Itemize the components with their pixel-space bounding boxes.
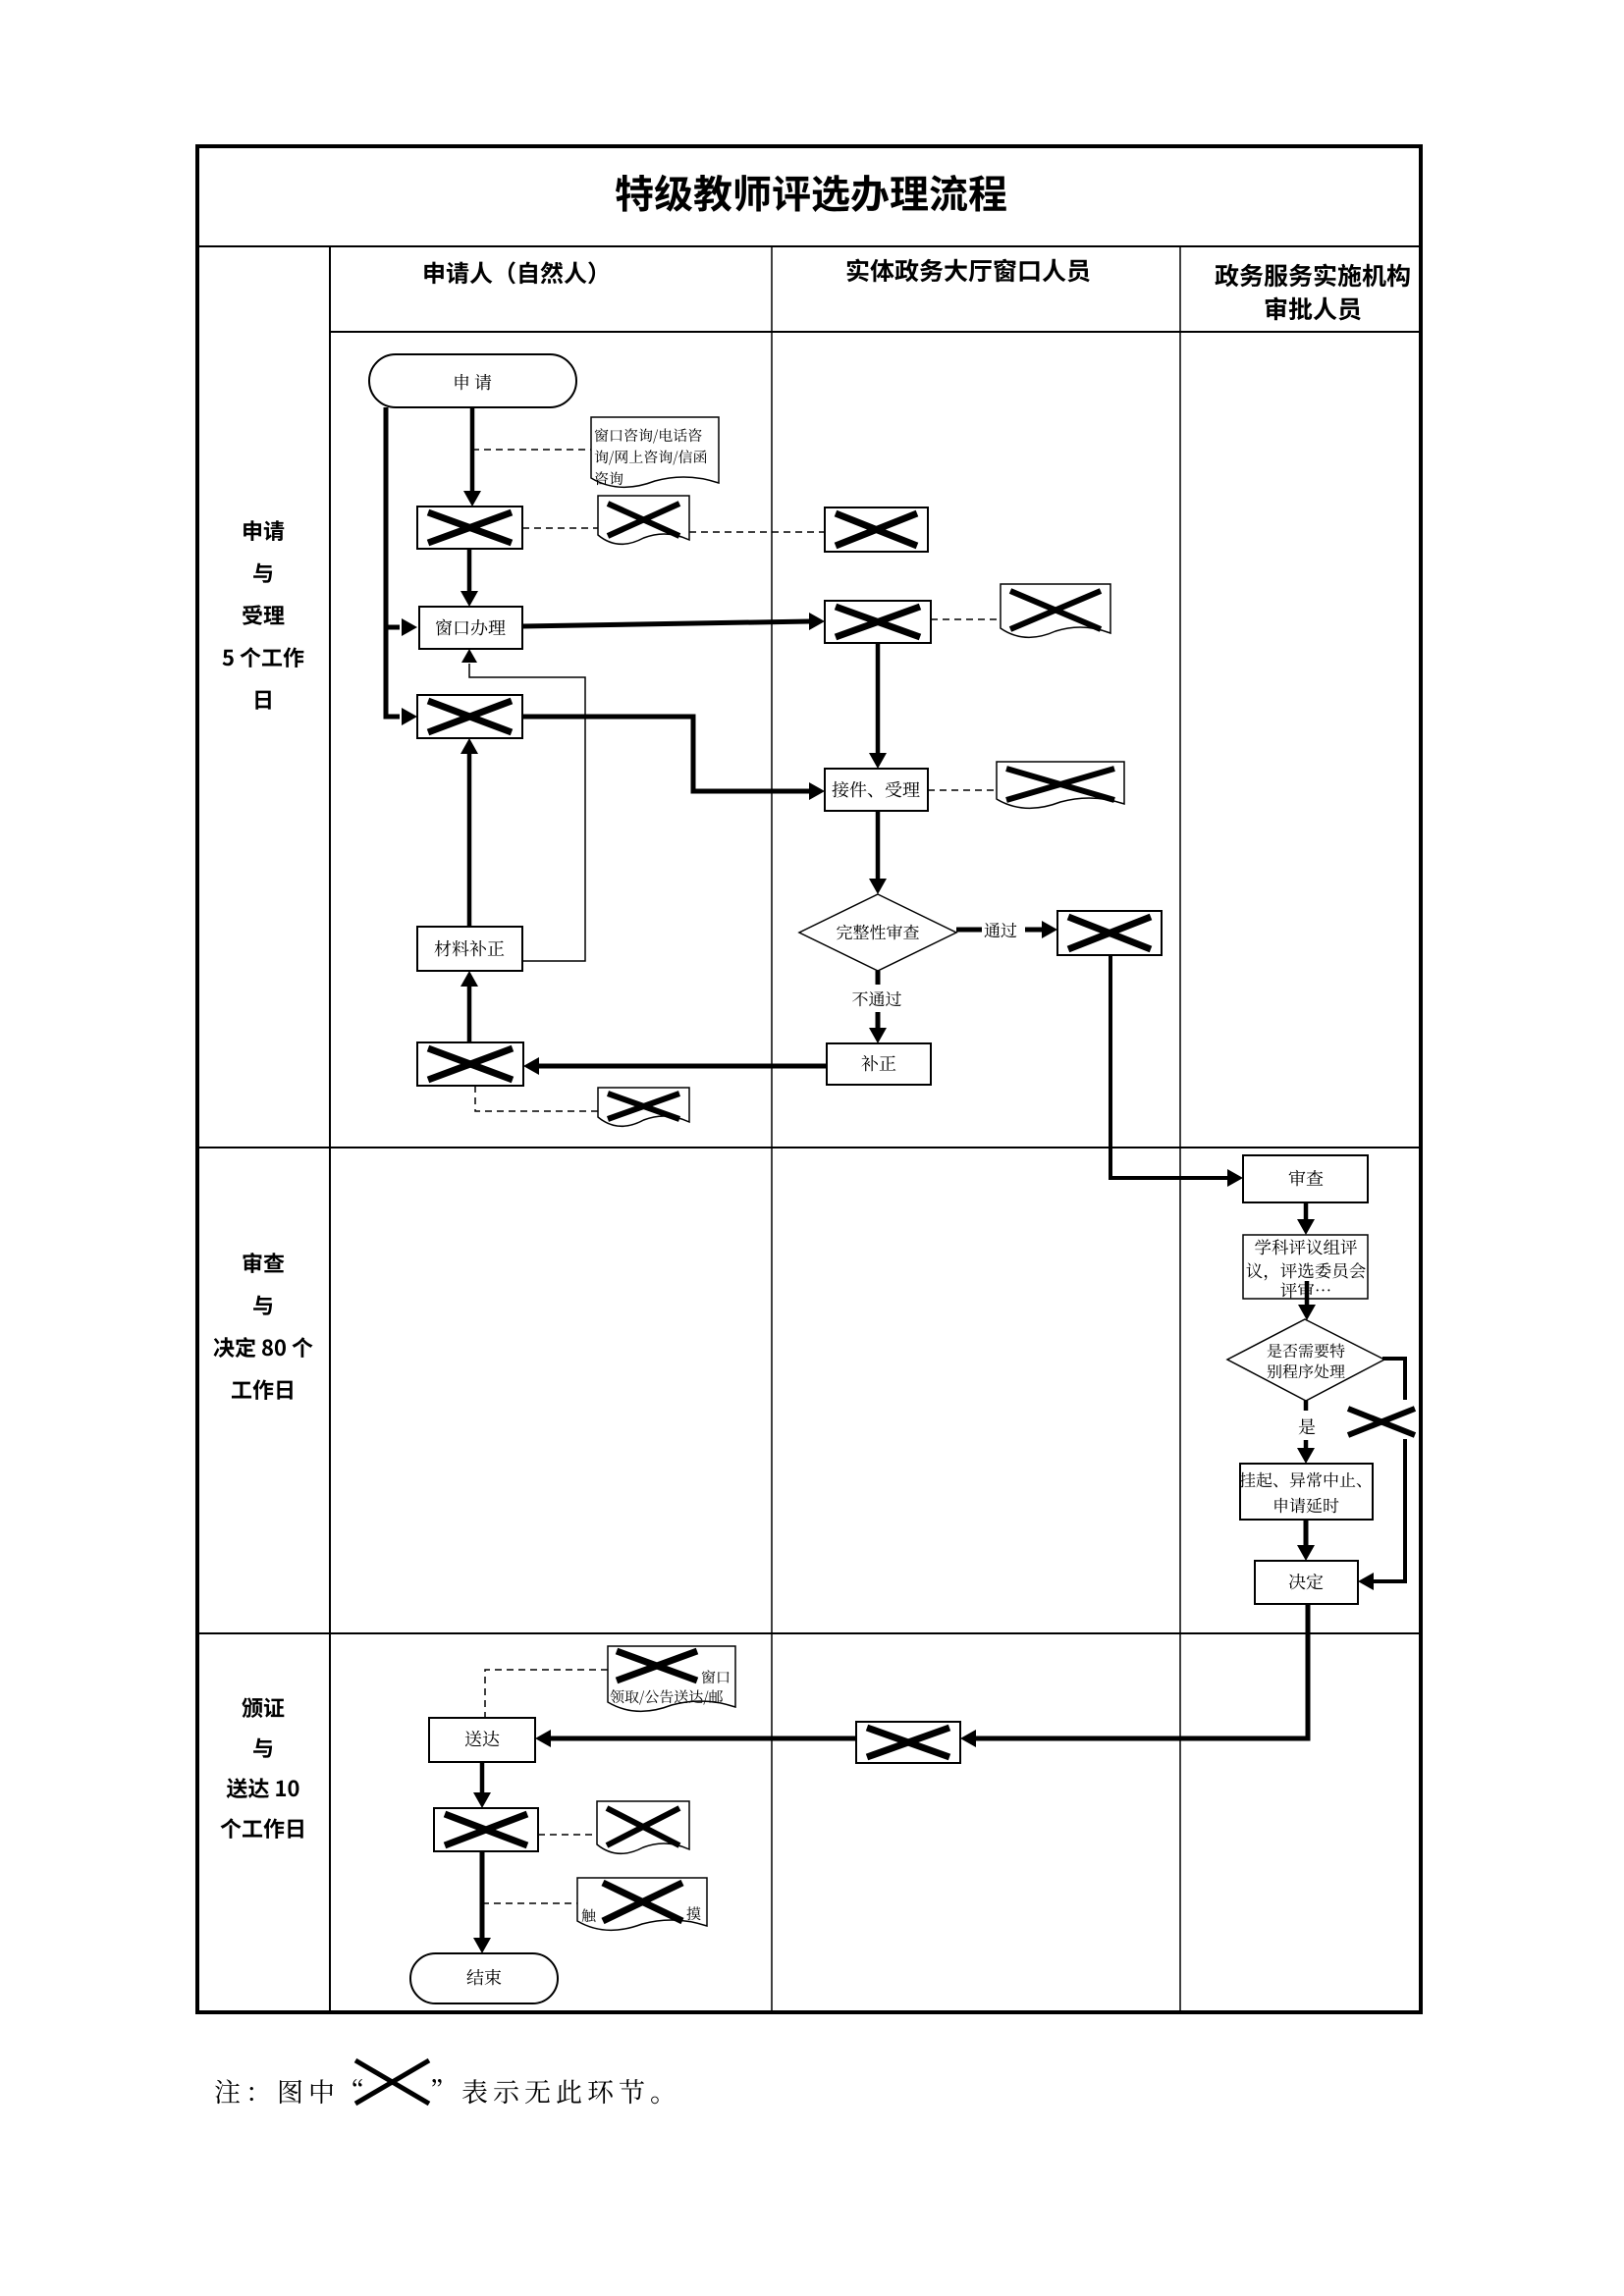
process 挂起、异常中止、申请延时 bbox=[1240, 1464, 1373, 1520]
end terminator 结束 bbox=[410, 1953, 558, 2003]
note 窗口咨询/电话咨询/网上咨询/信函咨询 bbox=[591, 417, 719, 487]
arrow X-box6 to 接件受理 bbox=[876, 643, 881, 754]
arrow 补正 to X-box3 bbox=[539, 1064, 827, 1069]
label 不通过 bbox=[852, 991, 901, 1006]
label column divider bbox=[329, 246, 331, 2011]
X-doc2 no-step document bbox=[598, 1088, 689, 1126]
X-box8 no-step bbox=[856, 1722, 960, 1763]
label 通过 bbox=[985, 923, 1017, 937]
row label C bbox=[242, 1697, 284, 1718]
legend text right bbox=[432, 2079, 442, 2087]
X-box6 no-step bbox=[825, 601, 931, 643]
arrow 挂起 to 决定 bbox=[1304, 1520, 1309, 1546]
process 决定 bbox=[1255, 1561, 1358, 1604]
row label B bbox=[244, 1253, 285, 1273]
path X-box2 to 接件受理 bbox=[522, 717, 810, 791]
start terminator 申请 bbox=[369, 354, 576, 407]
arrow 学科评议 to diamond2 bbox=[1305, 1281, 1310, 1306]
title row divider bbox=[197, 245, 1421, 247]
row divider A/B bbox=[197, 1147, 1421, 1148]
process 送达 bbox=[429, 1718, 535, 1762]
arrow X-box3 to 材料补正 bbox=[467, 986, 472, 1042]
process 补正 bbox=[827, 1043, 931, 1085]
dashed X-doc1 to X-box5 bbox=[689, 531, 825, 533]
header col3 line1 政务服务实施机构 bbox=[1216, 263, 1410, 287]
dashed 接件受理 to X-doc4 bbox=[928, 789, 997, 791]
decision 是否需要特别程序处理 bbox=[1227, 1319, 1384, 1401]
arrow 审查 to 学科评议 bbox=[1304, 1202, 1309, 1220]
process 审查 bbox=[1243, 1155, 1368, 1202]
lane divider col1/col2 bbox=[771, 246, 773, 2011]
process 窗口办理 bbox=[419, 607, 522, 649]
arrow diamond2 to 挂起 bbox=[1304, 1401, 1309, 1411]
dashed X-box3 to X-doc2 bbox=[475, 1086, 598, 1111]
arrow 接件受理 to diamond bbox=[876, 811, 881, 880]
X-doc4 no-step document bbox=[997, 762, 1124, 808]
process 学科评议组评议评选委员会评审 bbox=[1243, 1235, 1368, 1299]
dashed link to consult note bbox=[472, 449, 591, 451]
header col3 line2 审批人员 bbox=[1266, 296, 1361, 320]
path 决定 to X-box8 bbox=[976, 1604, 1308, 1738]
note 触/摸 document bbox=[577, 1878, 707, 1930]
X-doc3 no-step document bbox=[1001, 584, 1110, 637]
arrow X-box1 to 窗口办理 bbox=[467, 549, 472, 592]
X-box5 no-step bbox=[825, 507, 928, 552]
thin feedback 材料补正 to 窗口办理 bbox=[469, 664, 585, 961]
process 材料补正 bbox=[417, 927, 522, 971]
arrow 申请 to X-box1 bbox=[470, 407, 475, 492]
lane divider col2/col3 bbox=[1179, 246, 1181, 2011]
header col2 实体政务大厅窗口人员 bbox=[847, 258, 1090, 282]
header col1 申请人（自然人） bbox=[424, 261, 595, 284]
X-box3 no-step bbox=[417, 1042, 523, 1086]
dashed to 触摸 note bbox=[482, 1902, 577, 1904]
X-doc5 no-step document bbox=[597, 1801, 689, 1853]
decision 完整性审查 bbox=[799, 894, 956, 971]
path X-box7 to 审查 bbox=[1110, 955, 1228, 1178]
row label A bbox=[244, 520, 284, 541]
dashed X-box1 to X-doc1 bbox=[522, 527, 598, 529]
X-box7 no-step bbox=[1057, 911, 1162, 955]
row divider B/C bbox=[197, 1632, 1421, 1634]
legend text left bbox=[215, 2079, 333, 2104]
legend X marker bbox=[355, 2060, 429, 2104]
arrow X-box8 to 送达 bbox=[551, 1736, 856, 1741]
X-box1 no-step bbox=[417, 507, 522, 549]
note 窗口领取/公告送达/邮 document bbox=[608, 1646, 735, 1711]
arrow diamond to 补正 bbox=[876, 971, 881, 985]
X-doc1 no-step document bbox=[598, 496, 689, 544]
branch arrow into 窗口办理 left bbox=[386, 625, 400, 630]
outer frame bbox=[197, 146, 1421, 2012]
arrow 窗口办理 to X-box6 bbox=[522, 621, 810, 626]
X no-step marker on elbow bbox=[1348, 1409, 1415, 1435]
X-box4 no-step bbox=[434, 1808, 538, 1851]
dashed X-box4 to X-doc5 bbox=[538, 1834, 597, 1836]
dashed note to 送达 bbox=[485, 1670, 608, 1718]
arrow diamond to X-box7 bbox=[956, 928, 982, 933]
X-box2 no-step bbox=[417, 695, 522, 738]
label 是 bbox=[1299, 1418, 1316, 1434]
arrow X-box4 to 结束 bbox=[480, 1851, 485, 1939]
bypass line 申请 to X-box2 bbox=[386, 407, 400, 717]
header row divider bbox=[330, 331, 1421, 333]
process 接件、受理 bbox=[825, 769, 928, 811]
arrow 材料补正 to X-box2 bbox=[467, 753, 472, 927]
elbow diamond2 to 决定 bbox=[1382, 1359, 1405, 1400]
arrow 送达 to X-box4 bbox=[480, 1762, 485, 1793]
dashed X-box6 to X-doc3 bbox=[931, 618, 1001, 620]
title bbox=[616, 175, 1006, 212]
